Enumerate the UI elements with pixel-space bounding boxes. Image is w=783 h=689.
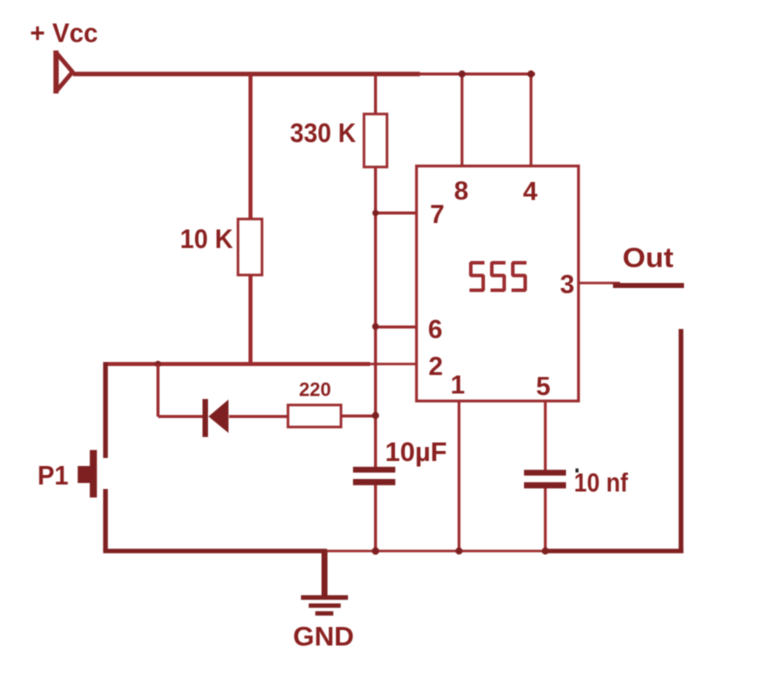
junction dot trigger-diode node: [155, 361, 161, 367]
ground bar 3: [315, 611, 333, 615]
label 330K: [290, 118, 356, 148]
pin number 6: [428, 314, 442, 344]
resistor 330K body: [364, 114, 387, 167]
diode D1 triangle: [209, 400, 229, 434]
wire diode to resistor 220: [229, 415, 289, 418]
pushbutton P1 upper stub: [103, 362, 108, 458]
wire bottom rail middle thin: [327, 550, 545, 553]
label Out: [623, 242, 674, 273]
junction dot pin7 node: [372, 210, 378, 216]
junction dot pin1 bottom: [455, 547, 462, 554]
wire pin6 stub: [376, 326, 418, 329]
wire bottom rail left thick: [103, 549, 327, 554]
wire 330K top lead: [374, 74, 377, 115]
wire pin5 upper lead: [544, 401, 547, 470]
diode D1 cathode bar: [203, 399, 209, 437]
wire C1 bottom lead: [374, 485, 377, 551]
svg-text:220: 220: [299, 380, 331, 401]
wire Vcc top rail left: [73, 72, 420, 76]
wire 330K bottom lead down to capacitor: [374, 167, 377, 467]
resistor 10K body: [238, 219, 262, 275]
wire 10K top lead: [249, 74, 253, 220]
label 10nf: [574, 470, 628, 498]
label 10uF: [385, 437, 447, 467]
wire Vcc top rail right: [418, 73, 535, 76]
junction dot C1 bottom: [372, 547, 379, 554]
junction dot 220 node: [372, 412, 379, 419]
label P1: [38, 461, 69, 491]
capacitor C2 10nF top plate: [524, 470, 566, 476]
IC U1 555 body: [417, 166, 579, 401]
capacitor C1 10uF top plate: [353, 467, 395, 473]
wire trigger rail pin2: [104, 362, 417, 366]
ground bar 2: [309, 603, 341, 607]
svg-text:2: 2: [429, 351, 443, 381]
pushbutton P1 bar: [90, 450, 97, 498]
speck artifact: [576, 469, 579, 473]
wire diode branch drop: [157, 364, 160, 417]
label 220: [299, 380, 331, 401]
pin number 8: [454, 176, 468, 206]
junction dot pin8 top: [458, 70, 465, 77]
svg-text:+ Vcc: + Vcc: [30, 18, 98, 48]
wire pin3 output stub: [579, 282, 620, 285]
wire pin4 lead: [530, 74, 533, 166]
wire pin1 lead: [458, 401, 461, 551]
svg-text:6: 6: [428, 314, 442, 344]
svg-text:GND: GND: [293, 622, 354, 652]
Vcc terminal triangle: [56, 51, 73, 94]
wire pin5 lower lead: [544, 488, 547, 551]
pin number 5: [536, 371, 550, 401]
wire output thick segment: [613, 283, 684, 288]
ground stem: [322, 551, 328, 597]
junction dot pin4 top: [527, 70, 534, 77]
wire right vertical open stub: [679, 329, 684, 553]
svg-text:P1: P1: [38, 461, 69, 491]
pushbutton P1 actuator: [78, 466, 91, 483]
pin number 4: [523, 176, 538, 206]
wire 220 to vertical rail: [341, 415, 376, 418]
label +Vcc: [30, 18, 98, 48]
svg-text:5: 5: [536, 371, 550, 401]
capacitor C1 10uF bottom plate: [353, 479, 395, 485]
label 10K: [180, 224, 233, 254]
ground bar 1: [301, 595, 348, 600]
svg-text:330 K: 330 K: [290, 118, 356, 148]
resistor 220 body: [288, 405, 341, 427]
svg-text:10 K: 10 K: [180, 224, 233, 254]
pin number 7: [430, 199, 444, 229]
wire diode anode lead: [158, 415, 203, 418]
label 555: [470, 263, 527, 290]
junction dot pin5 bottom: [542, 547, 549, 554]
pin number 2: [429, 351, 443, 381]
wire bottom rail right thick: [543, 549, 683, 554]
wire pin8 lead: [461, 74, 464, 166]
svg-text:10 nf: 10 nf: [574, 470, 628, 498]
junction dot pin6 node: [372, 323, 379, 330]
svg-text:3: 3: [560, 269, 574, 299]
pin number 3: [560, 269, 574, 299]
label GND: [293, 622, 354, 652]
pin number 1: [451, 370, 465, 400]
svg-text:7: 7: [430, 199, 444, 229]
svg-text:8: 8: [454, 176, 468, 206]
wire 10K bottom lead: [249, 275, 253, 364]
svg-text:1: 1: [451, 370, 465, 400]
capacitor C2 10nF bottom plate: [524, 482, 566, 488]
svg-text:Out: Out: [623, 242, 674, 273]
pushbutton P1 lower stub: [103, 489, 108, 551]
svg-text:10µF: 10µF: [385, 437, 447, 467]
wire pin7 stub: [376, 212, 418, 215]
svg-text:4: 4: [523, 176, 538, 206]
